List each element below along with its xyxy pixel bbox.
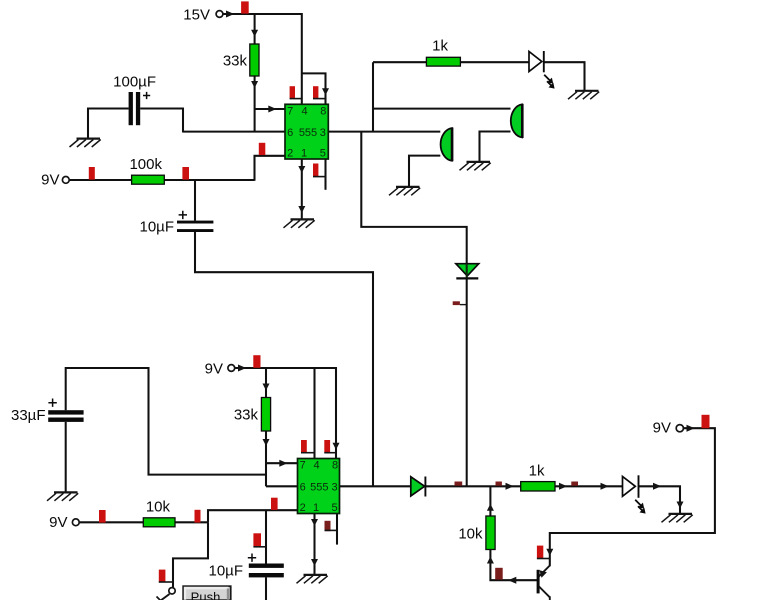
resistor R2 100k [129, 156, 164, 184]
svg-text:9V: 9V [41, 172, 59, 189]
op-amp U2 555 timer [298, 459, 340, 515]
ground below LS1 [460, 162, 491, 170]
ground below D4 [662, 514, 693, 522]
current arrow up below R7 [487, 557, 494, 564]
wire 15V rail to pin4 U1 [223, 14, 302, 104]
wire D4 cathode to ground [638, 486, 680, 514]
probe marker on pin5 U1 stub [313, 164, 326, 177]
diode D3 conducting [411, 477, 426, 497]
current arrow into pin7 U1 [268, 106, 276, 113]
probe marker near pin4 U1 [290, 86, 302, 98]
wire pin3 U1 output net [328, 131, 440, 133]
current arrow on pin1 U2 lead [311, 519, 318, 526]
wire C3 top plate link to pin6 net [66, 368, 266, 475]
current arrow on base wire toward R7 [508, 577, 516, 584]
svg-text:1k: 1k [529, 463, 545, 480]
svg-text:15V: 15V [183, 7, 210, 24]
probe marker before D4 [571, 482, 578, 486]
speaker LS2 [441, 128, 453, 162]
node 15V supply terminal [183, 7, 223, 24]
probe marker on D2 cathode wire [453, 301, 467, 305]
wire pin5 U1 stub [324, 159, 326, 190]
wire pin1 U2 to ground [313, 514, 315, 575]
wire C1 left plate to ground [88, 109, 129, 139]
push button of SW1 [183, 586, 231, 600]
current arrow below R4 [263, 439, 270, 446]
probe marker on collector wire [537, 546, 550, 559]
switch SW1 push-to-make [157, 588, 176, 600]
resistor R1 33k [223, 44, 259, 76]
current arrow up into R7 [487, 504, 494, 511]
probe marker near switch SW1 [159, 570, 173, 583]
wire riser to pin2 U1 [255, 156, 286, 181]
wire riser to R3 branch [372, 62, 374, 131]
wire to pin7 U1 [255, 108, 285, 110]
current arrow into pin8 U1 [322, 88, 329, 95]
LED D4 [623, 475, 646, 513]
svg-text:555: 555 [310, 481, 328, 493]
svg-text:6: 6 [300, 481, 306, 493]
wire branch to pin8 U1 [302, 73, 326, 104]
current arrow after R6 [559, 483, 567, 490]
wire 9V terminal 4 to Q1 collector [550, 428, 715, 566]
probe marker on pin5 U2 stub [325, 521, 338, 531]
current arrow into pin8 U2 [333, 443, 340, 450]
node 9V terminal 3 [49, 514, 79, 531]
wire pin6 U1 net [183, 131, 285, 133]
resistor R5 10k [143, 499, 175, 527]
current arrow into R1 [251, 30, 258, 37]
LED D2 green lit [456, 264, 479, 279]
capacitor C1 100uF [113, 74, 156, 126]
svg-text:2: 2 [300, 502, 306, 514]
wire pin4 U2 drop [313, 368, 315, 459]
node 9V terminal 2 [205, 361, 235, 378]
wire pin5 U2 stub [336, 514, 338, 545]
wire riser to pin2 U2 [208, 510, 298, 522]
current arrow on collector drop [546, 549, 553, 556]
svg-text:7: 7 [287, 105, 293, 117]
wire speaker LS1 top lead [373, 108, 511, 110]
svg-text:10µF: 10µF [209, 563, 244, 580]
svg-text:1k: 1k [432, 38, 448, 55]
wire C2 bottom long link to pin3 U2 net [195, 232, 373, 486]
wire C3 bottom to ground [65, 422, 67, 492]
current arrow into R4 [263, 384, 270, 391]
probe marker after junction [496, 482, 502, 486]
current arrow below R1 [251, 81, 258, 88]
probe marker near pin8 U2 [324, 440, 336, 453]
probe marker on 15V rail [241, 1, 249, 13]
wire junction down to R7 top [489, 486, 491, 516]
wire C1 right plate to pin6 net [140, 109, 183, 133]
node 9V terminal 4 [653, 420, 684, 437]
svg-text:8: 8 [320, 105, 326, 117]
wire down to push switch SW1 [173, 522, 208, 587]
wire pin1 U1 to ground [301, 159, 303, 219]
resistor R7 10k [458, 516, 495, 550]
probe marker on 9V wire 4 [702, 415, 710, 428]
current arrow into pin7 U2 [279, 460, 287, 467]
probe marker near pin4 U2 [301, 440, 315, 453]
wire R6 to D4 anode [555, 485, 622, 487]
ground below pin1 U2 [297, 575, 328, 583]
wire 9V terminal 3 through R5 [80, 521, 208, 523]
probe marker after R5 [195, 510, 201, 523]
wire 15V junction to R1 top [254, 14, 256, 44]
probe marker after R2 [182, 167, 189, 180]
current arrow near ground pin1 U2 [311, 559, 318, 566]
svg-text:5: 5 [320, 148, 326, 160]
resistor R6 1k [521, 463, 555, 492]
probe marker on pin2 U1 wire [259, 143, 266, 155]
wire junction to C4 top [265, 510, 267, 563]
svg-text:100µF: 100µF [113, 74, 156, 91]
wire branch down to green LED D2 [361, 132, 466, 264]
wire D2 cathode down to lower net [466, 279, 468, 487]
ground below C3 [47, 492, 78, 500]
probe marker after 9V terminal 3 [99, 510, 106, 523]
svg-text:2: 2 [287, 148, 293, 160]
svg-text:8: 8 [332, 460, 338, 472]
speaker LS1 [511, 104, 523, 138]
svg-text:33k: 33k [223, 53, 248, 70]
current arrow after 9V terminal 4 [687, 425, 695, 432]
current arrow after D4 [653, 483, 661, 490]
capacitor C4 10uF [209, 554, 284, 580]
svg-text:5: 5 [331, 502, 337, 514]
node 9V terminal top-left [41, 172, 69, 189]
svg-text:4: 4 [314, 460, 320, 472]
wire pin3 U2 to D3 anode [340, 485, 411, 487]
svg-text:6: 6 [287, 127, 293, 139]
svg-text:3: 3 [331, 481, 337, 493]
svg-text:Push: Push [191, 590, 221, 600]
probe marker on Q1 base wire [495, 568, 503, 580]
wire R4 bottom down to pin6 net [265, 431, 267, 486]
wire speaker LS1 bottom lead to ground [480, 132, 511, 162]
probe marker on pin3 U2 output wire [455, 482, 463, 486]
probe marker after 9V terminal [89, 167, 95, 180]
wire to R3 left [373, 61, 426, 63]
svg-text:9V: 9V [653, 420, 671, 437]
capacitor C2 10uF [140, 211, 214, 236]
wire 9V terminal through R2 [69, 179, 254, 181]
current arrow into D4 [601, 483, 609, 490]
current arrow near ground pin1 U1 [298, 206, 305, 213]
wire R3 right to D1 anode [460, 61, 529, 63]
ground below LS2 [389, 187, 420, 195]
svg-text:9V: 9V [205, 361, 223, 378]
current arrow before R6 [506, 483, 514, 490]
wire D3 cathode to R6 [425, 485, 521, 487]
LED D1 [529, 51, 555, 89]
current arrow before D4 ground [677, 502, 684, 509]
wire speaker LS2 bottom lead to ground [409, 156, 440, 187]
ground below D1 [568, 91, 599, 99]
current arrow on pin1 U1 ground lead [298, 166, 305, 173]
svg-text:10k: 10k [146, 499, 171, 516]
current arrow after 15V terminal [226, 11, 234, 18]
ground below pin1 U1 [284, 219, 315, 227]
wire R1 bottom down to pin6 net [254, 76, 256, 132]
probe marker on C4 top wire [253, 533, 266, 547]
ground below C1 [70, 139, 101, 147]
svg-text:7: 7 [300, 460, 306, 472]
current arrow after 9V terminal 2 [238, 365, 246, 372]
svg-text:9V: 9V [49, 514, 67, 531]
wire pin6 U2 [266, 485, 298, 487]
svg-text:33k: 33k [234, 407, 259, 424]
probe marker on pin2 U2 wire [271, 498, 278, 510]
wire junction to C2 top [194, 180, 196, 221]
wire R7 bottom to Q1 base [490, 550, 537, 581]
svg-text:33µF: 33µF [11, 407, 46, 424]
transistor Q1 NPN [537, 566, 550, 600]
op-amp U1 555 timer [285, 104, 328, 159]
svg-text:10µF: 10µF [140, 219, 175, 236]
resistor R3 1k [426, 38, 460, 67]
svg-text:1: 1 [301, 148, 307, 160]
svg-text:10k: 10k [458, 526, 483, 543]
probe marker near pin8 U1 [313, 86, 326, 98]
svg-text:4: 4 [302, 105, 308, 117]
svg-text:3: 3 [320, 127, 326, 139]
wire junction to R4 top [265, 368, 267, 398]
svg-text:100k: 100k [129, 156, 162, 173]
wire C4 bottom lead [265, 577, 267, 600]
probe marker on 9V rail 2 [253, 355, 260, 368]
wire D1 cathode to ground [544, 62, 585, 91]
svg-text:1: 1 [313, 502, 319, 514]
capacitor C3 33uF [11, 399, 84, 425]
resistor R4 33k [234, 398, 271, 432]
wire 9V rail 2 and pin8 U2 drop [235, 368, 336, 459]
wire to pin7 U2 [266, 462, 298, 464]
svg-text:555: 555 [299, 127, 317, 139]
